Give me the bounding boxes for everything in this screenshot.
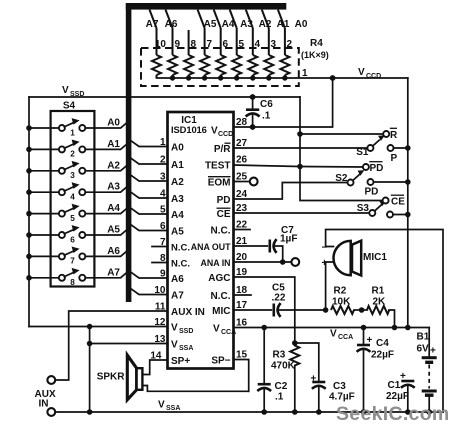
resistor R4 element 6 (pin 5, A3) bbox=[230, 10, 242, 78]
svg-text:(1K×9): (1K×9) bbox=[301, 50, 329, 60]
svg-text:ANA OUT: ANA OUT bbox=[191, 242, 231, 252]
svg-text:N.C.: N.C. bbox=[171, 243, 190, 254]
wire: pin 20 ANA IN bbox=[234, 261, 292, 263]
node: junction dot R1/VCCA bbox=[392, 325, 398, 331]
svg-text:4: 4 bbox=[254, 39, 260, 50]
svg-text:SSD: SSD bbox=[179, 328, 193, 335]
svg-text:A1: A1 bbox=[107, 139, 120, 150]
svg-text:SP+: SP+ bbox=[171, 356, 190, 367]
svg-text:A2: A2 bbox=[171, 177, 184, 188]
node: junction dot C7/ANA IN bbox=[280, 259, 286, 265]
svg-text:CE: CE bbox=[217, 209, 231, 220]
svg-text:3: 3 bbox=[270, 39, 276, 50]
svg-text:B1: B1 bbox=[417, 332, 430, 343]
node: junction dot VCCD feed at x332.6 bbox=[330, 75, 336, 81]
svg-text:26: 26 bbox=[236, 155, 248, 166]
svg-text:MIC1: MIC1 bbox=[363, 252, 387, 263]
wire: pin 24 PD with jog to S2 bbox=[234, 183, 348, 200]
wire: pin 26 TEST to PD-bar throw bbox=[234, 165, 363, 167]
svg-text:A3: A3 bbox=[107, 182, 120, 193]
svg-text:C4: C4 bbox=[376, 338, 389, 349]
svg-text:R1: R1 bbox=[372, 286, 385, 297]
svg-text:N.C.: N.C. bbox=[211, 226, 231, 237]
svg-text:10K: 10K bbox=[332, 297, 351, 308]
wire: VCCD rail corner down right side x=408 bbox=[407, 78, 409, 328]
capacitor C4 22uF bbox=[357, 328, 371, 413]
pin 12 label VSSD inside bbox=[171, 323, 193, 336]
svg-text:IN: IN bbox=[39, 399, 49, 410]
resistor R3 470K bbox=[290, 346, 299, 413]
resistor R4 element 4 (pin 7, A5) bbox=[198, 10, 210, 78]
wire: AUX IN to pin 11 bbox=[55, 311, 167, 380]
wire: PD to VCCD drop bbox=[374, 181, 408, 183]
capacitor C1 22uF bbox=[401, 381, 415, 412]
svg-text:A1: A1 bbox=[277, 19, 290, 30]
switch S4-3 bbox=[26, 161, 127, 180]
svg-text:C2: C2 bbox=[275, 381, 288, 392]
svg-text:3: 3 bbox=[70, 171, 75, 180]
wire: mic minus lead and top ground return bbox=[326, 230, 443, 413]
svg-text:A0: A0 bbox=[295, 19, 308, 30]
svg-text:1µF: 1µF bbox=[280, 234, 297, 245]
microphone MIC1 bbox=[334, 241, 362, 276]
svg-text:5: 5 bbox=[238, 39, 244, 50]
node: junction dot R2/R1 bbox=[359, 307, 365, 313]
svg-text:.22: .22 bbox=[272, 293, 286, 304]
resistor R2 10K bbox=[331, 306, 354, 314]
svg-text:R: R bbox=[390, 130, 398, 141]
svg-text:A7: A7 bbox=[171, 291, 184, 302]
node: junction dot pin13 tie bbox=[87, 341, 93, 347]
switch S2 bbox=[348, 170, 365, 185]
switch S4-2 bbox=[26, 140, 127, 159]
svg-text:22µF: 22µF bbox=[371, 350, 394, 361]
svg-text:R3: R3 bbox=[273, 350, 286, 361]
svg-text:A4: A4 bbox=[107, 203, 120, 214]
svg-text:SSA: SSA bbox=[179, 345, 193, 352]
svg-text:PD: PD bbox=[365, 187, 379, 198]
svg-text:V: V bbox=[171, 340, 178, 351]
node: junction dot B1 rail bbox=[426, 409, 432, 415]
node: junction dot C4 rail bbox=[361, 409, 367, 415]
pin 25 label EOM inside bbox=[208, 177, 231, 189]
svg-text:A2: A2 bbox=[259, 19, 272, 30]
switch S1 bbox=[367, 135, 385, 151]
wire: bus tap to IC pin 6 bbox=[131, 225, 167, 230]
svg-text:V: V bbox=[171, 323, 178, 334]
svg-text:470K: 470K bbox=[271, 361, 296, 372]
node PD-bar circle bbox=[363, 164, 369, 170]
wire: bus tap to IC pin 4 bbox=[131, 193, 167, 198]
svg-text:A0: A0 bbox=[171, 143, 184, 154]
svg-text:SSA: SSA bbox=[166, 405, 180, 412]
node PD circle bbox=[368, 179, 374, 185]
svg-text:C3: C3 bbox=[333, 381, 346, 392]
node: junction dot pin28/C6 bbox=[250, 124, 256, 130]
svg-text:AUX IN: AUX IN bbox=[171, 307, 205, 318]
label R with overline bbox=[390, 128, 398, 141]
svg-text:+: + bbox=[311, 374, 317, 385]
resistor network R4 dashed box bbox=[141, 48, 299, 86]
wire: pin 22 N.C. stub bbox=[234, 229, 251, 231]
node: junction dot C2 rail bbox=[261, 409, 267, 415]
svg-text:9: 9 bbox=[174, 39, 180, 50]
wire: R1 to VCCA bbox=[389, 310, 395, 328]
switch S4-6 bbox=[26, 225, 127, 244]
svg-text:ANA IN: ANA IN bbox=[201, 258, 231, 268]
pin 23 label CE inside bbox=[217, 208, 231, 220]
wire: R4 common bottom line to VCCD bbox=[157, 77, 408, 79]
node CE circle bbox=[383, 198, 389, 204]
svg-text:+: + bbox=[400, 371, 406, 382]
svg-text:+: + bbox=[322, 258, 328, 269]
node: junction dot PD/VCCD bbox=[405, 179, 411, 185]
svg-text:SeekIC.com: SeekIC.com bbox=[336, 403, 450, 425]
svg-text:2: 2 bbox=[70, 150, 75, 159]
switch S4-5 bbox=[26, 204, 127, 223]
resistor R4 element 5 (pin 6, A4) bbox=[214, 10, 226, 78]
wire: R-bar line to ground vertical bbox=[300, 133, 383, 135]
pin numbers 10 9 8 7 6 5 4 3 2 of R4 bbox=[155, 39, 293, 50]
svg-text:R4: R4 bbox=[310, 38, 323, 49]
wire: mic plus lead bbox=[326, 262, 334, 310]
wire: bus tap to IC pin 1 bbox=[131, 141, 167, 146]
wire: VSSD ground line y=97 bbox=[29, 96, 300, 98]
svg-text:R2: R2 bbox=[334, 286, 347, 297]
switch S4 DIP bank box bbox=[51, 111, 95, 287]
node: junction dot P/VCCD bbox=[405, 145, 411, 151]
wire: address bus horizontal bar bbox=[126, 3, 286, 10]
net label VCCD bbox=[358, 67, 381, 80]
svg-text:N.C.: N.C. bbox=[211, 291, 231, 302]
svg-text:2K: 2K bbox=[373, 297, 387, 308]
node: junction dot R3 rail bbox=[292, 409, 298, 415]
svg-text:CCD: CCD bbox=[218, 131, 233, 138]
node: junction dot C2 top bbox=[261, 325, 267, 331]
node: junction dot MIC+/R2 bbox=[323, 307, 329, 313]
resistor R4 element 8 (pin 3, A1) bbox=[262, 10, 274, 78]
svg-text:PD: PD bbox=[370, 163, 384, 174]
svg-text:CCD: CCD bbox=[366, 73, 381, 80]
op-amp/IC U1: IC1 ISD1016 box bbox=[168, 112, 234, 369]
svg-text:22µF: 22µF bbox=[386, 391, 409, 402]
net label VSSD (top left) bbox=[62, 85, 84, 98]
svg-text:SPKR: SPKR bbox=[97, 372, 126, 383]
svg-text:PD: PD bbox=[217, 195, 231, 206]
wire: pin 27 P/R to S1 bbox=[234, 147, 368, 149]
wire: bus tap to IC pin 2 bbox=[131, 159, 167, 164]
capacitor C2 0.1 bbox=[257, 328, 271, 413]
svg-text:7: 7 bbox=[70, 257, 75, 266]
wire: VSSA tie vertical x=89.6 bbox=[89, 327, 91, 413]
resistor R4 element 1 (pin 10, A7) bbox=[150, 10, 162, 78]
node P (playback) circle bbox=[388, 145, 394, 151]
svg-text:ISD1016: ISD1016 bbox=[171, 124, 207, 135]
svg-text:P/R: P/R bbox=[214, 144, 231, 155]
wire: address bus vertical bar bbox=[126, 3, 132, 302]
svg-text:2: 2 bbox=[286, 39, 292, 50]
wire: P to VCCD drop bbox=[394, 147, 408, 149]
node: junction dot VSSD/VSSA tie bbox=[87, 324, 93, 330]
pin 13 label VSSA inside bbox=[171, 340, 193, 353]
svg-text:A0: A0 bbox=[107, 118, 120, 129]
svg-text:A6: A6 bbox=[171, 274, 184, 285]
wire: N.C. stub pin 8 bbox=[152, 262, 168, 264]
svg-text:+: + bbox=[430, 346, 436, 357]
node: junction dot VCCD drop/VCCA bbox=[405, 325, 411, 331]
svg-text:28: 28 bbox=[236, 117, 248, 128]
svg-text:AGC: AGC bbox=[208, 273, 230, 284]
svg-text:.1: .1 bbox=[275, 392, 284, 403]
svg-text:C6: C6 bbox=[260, 99, 273, 110]
switch S4-1 bbox=[26, 118, 127, 137]
wire: VSSD left rail x=29 bbox=[28, 97, 30, 327]
switch S4-7 bbox=[26, 247, 127, 266]
svg-text:TEST: TEST bbox=[205, 161, 231, 172]
wire: pin 19 AGC down bbox=[234, 277, 295, 346]
svg-text:4: 4 bbox=[70, 193, 75, 202]
wire: AGC branch to C3 bbox=[295, 343, 319, 381]
pin 28 label VCCD inside bbox=[211, 126, 233, 139]
node: junction dot TEST/ground bbox=[297, 164, 303, 170]
svg-text:8: 8 bbox=[190, 39, 196, 50]
capacitor C3 4.7uF bbox=[312, 382, 326, 412]
svg-text:6V: 6V bbox=[417, 344, 430, 355]
svg-text:A3: A3 bbox=[171, 194, 184, 205]
svg-text:V: V bbox=[158, 400, 165, 411]
wire: pin 15 SP- down and around bbox=[234, 360, 249, 392]
wire: ground drop x=300 down to CE feed bbox=[300, 97, 382, 201]
wire: VCCD feed down to pin 28 bbox=[234, 78, 333, 127]
svg-text:V: V bbox=[211, 126, 218, 137]
svg-text:CE: CE bbox=[391, 197, 405, 208]
svg-text:A4: A4 bbox=[222, 19, 235, 30]
node: junction dot S3/VCCD bbox=[405, 212, 411, 218]
wire: bus tap to IC pin 10 bbox=[131, 289, 167, 294]
svg-text:1: 1 bbox=[70, 128, 75, 137]
wire: R2-R1 link bbox=[354, 309, 367, 311]
speaker SPKR bbox=[127, 355, 142, 400]
node: junction dot AGC node bbox=[292, 340, 298, 346]
svg-text:6: 6 bbox=[70, 235, 75, 244]
resistor R4 element 7 (pin 4, A2) bbox=[246, 10, 257, 78]
svg-text:A4: A4 bbox=[171, 210, 184, 221]
node: ANA IN open terminal bbox=[291, 258, 299, 266]
svg-text:MIC: MIC bbox=[212, 306, 230, 317]
svg-text:4.7µF: 4.7µF bbox=[329, 392, 355, 403]
node: junction dot R-bar/ground bbox=[297, 131, 303, 137]
wire: pin 18 N.C. stub bbox=[234, 294, 252, 296]
capacitor C7 1uF bbox=[270, 239, 283, 262]
svg-text:A5: A5 bbox=[107, 225, 120, 236]
svg-text:6: 6 bbox=[222, 39, 228, 50]
svg-text:V: V bbox=[358, 67, 365, 78]
switch S3 bbox=[369, 201, 386, 216]
svg-text:C1: C1 bbox=[388, 380, 401, 391]
node labels A7 A6 A5 A4 A3 A2 A1 A0 above resistor network bbox=[146, 19, 308, 30]
svg-text:A5: A5 bbox=[204, 19, 217, 30]
wire: pin 14 SP+ to speaker bbox=[142, 360, 168, 375]
svg-text:S2: S2 bbox=[335, 173, 348, 184]
wire: pin 16 VCCA rail bbox=[234, 327, 430, 329]
pin 27 label P/R inside bbox=[214, 143, 231, 155]
svg-text:+: + bbox=[367, 335, 373, 346]
svg-text:.1: .1 bbox=[262, 111, 271, 122]
wire: S3 lower throw to VCCD drop bbox=[393, 214, 408, 216]
svg-text:S1: S1 bbox=[356, 147, 369, 158]
node: junction dot C3 rail bbox=[316, 409, 322, 415]
wire: pin 12 VSSD line from left rail bbox=[29, 326, 168, 328]
resistor R4 element 3 (pin 8, stub) bbox=[184, 30, 193, 78]
label CE with overline bbox=[391, 195, 405, 207]
svg-text:A7: A7 bbox=[107, 267, 120, 278]
node: AUX IN lower open terminal (VSSA) bbox=[47, 408, 55, 416]
capacitor C5 0.22 bbox=[274, 303, 326, 317]
node: junction dot C6 top bbox=[250, 94, 256, 100]
wire: pin 23 CE to S3 bbox=[234, 212, 370, 214]
svg-text:A2: A2 bbox=[107, 160, 120, 171]
svg-text:A6: A6 bbox=[107, 246, 120, 257]
wire: pin 21 ANA OUT to C7 bbox=[234, 245, 268, 247]
label PD with overline bbox=[369, 162, 383, 174]
svg-text:V: V bbox=[62, 85, 69, 96]
svg-text:A3: A3 bbox=[240, 19, 253, 30]
net label VCCA bbox=[330, 329, 353, 342]
svg-text:8: 8 bbox=[70, 278, 75, 287]
node: junction dot C4 top bbox=[361, 325, 367, 331]
svg-text:5: 5 bbox=[70, 214, 75, 223]
node R (record) circle bbox=[383, 131, 389, 137]
wire: pin 25 EOM stub bbox=[234, 181, 250, 183]
wire: bus tap to IC pin 5 bbox=[131, 209, 167, 214]
svg-text:10: 10 bbox=[155, 39, 167, 50]
svg-text:A6: A6 bbox=[165, 19, 178, 30]
svg-text:V: V bbox=[330, 329, 337, 340]
wire: N.C. stub pin 7 bbox=[152, 246, 168, 248]
wire: pin 13 VSSA line bbox=[90, 343, 168, 345]
wire: VSSA bottom rail bbox=[55, 411, 443, 413]
svg-text:CCA: CCA bbox=[221, 329, 236, 336]
svg-text:S3: S3 bbox=[357, 203, 370, 214]
svg-text:−: − bbox=[322, 243, 328, 254]
node S3 lower throw circle bbox=[387, 212, 393, 218]
switch S4-4 bbox=[26, 182, 127, 201]
svg-text:A7: A7 bbox=[146, 19, 159, 30]
svg-text:S4: S4 bbox=[63, 101, 76, 112]
wire: bus tap to IC pin 9 bbox=[131, 273, 167, 278]
svg-text:V: V bbox=[213, 324, 220, 335]
net label VSSA bbox=[158, 400, 180, 413]
svg-text:EOM: EOM bbox=[208, 178, 231, 189]
wire: bus tap to IC pin 3 bbox=[131, 176, 167, 181]
svg-text:SP−: SP− bbox=[211, 356, 230, 367]
node: junction dot rail x=89.6 bbox=[87, 409, 93, 415]
battery B1 6V bbox=[422, 328, 437, 413]
svg-text:CCA: CCA bbox=[338, 334, 353, 341]
node: AUX IN upper open terminal bbox=[47, 376, 55, 384]
capacitor C6 0.1 bbox=[246, 97, 260, 127]
switch S4-8 bbox=[26, 268, 127, 287]
resistor R4 element 9 (pin 2, A0) bbox=[278, 10, 290, 78]
svg-text:P: P bbox=[391, 153, 398, 164]
pin 16 label VCCA inside bbox=[213, 324, 236, 337]
svg-text:A1: A1 bbox=[171, 160, 184, 171]
svg-text:A5: A5 bbox=[171, 227, 184, 238]
svg-text:N.C.: N.C. bbox=[171, 259, 190, 270]
wire: pin 17 MIC to C5 bbox=[234, 309, 272, 311]
wire: speaker bottom terminal to SP- return bbox=[142, 386, 248, 392]
node: EOM open terminal bbox=[250, 178, 258, 186]
junction dots at resistor bottoms bbox=[170, 75, 288, 80]
node: junction dot C1 rail bbox=[405, 409, 411, 415]
resistor R4 element 2 (pin 9, A6) bbox=[166, 10, 178, 78]
resistor R1 2K bbox=[367, 306, 389, 314]
svg-text:7: 7 bbox=[206, 39, 212, 50]
